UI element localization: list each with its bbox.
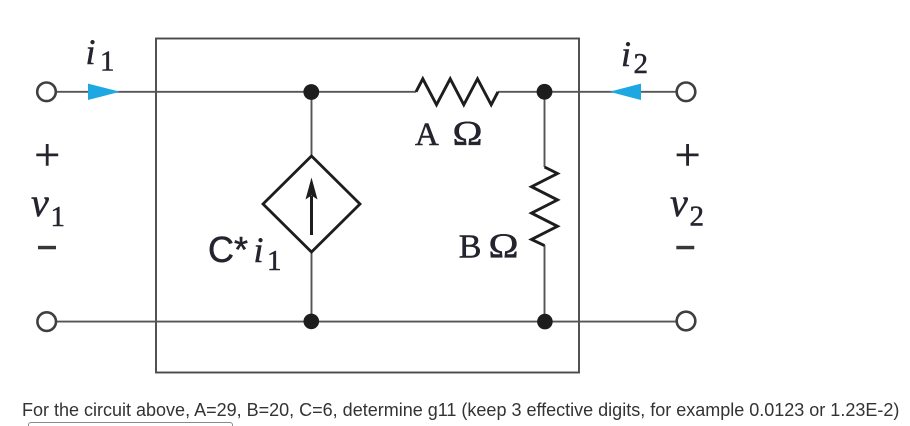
current arrow i2 (blue): [610, 84, 642, 100]
svg-text:i: i: [621, 34, 631, 74]
svg-text:A: A: [415, 117, 439, 153]
dependent current source diamond U1: [263, 156, 360, 252]
wire node1 to source top: [311, 92, 313, 157]
wire resistor B bottom to node4: [544, 245, 546, 321]
svg-text:B: B: [459, 229, 482, 266]
node dot bottom-right: [537, 314, 553, 330]
terminal 2 (top-right port circle): [677, 83, 696, 102]
resistor A (horizontal zigzag): [416, 79, 498, 105]
terminal 3 (bottom-left port circle): [37, 312, 56, 331]
svg-text:Ω: Ω: [489, 227, 519, 266]
wire node2 to resistor B top: [544, 92, 546, 167]
label minus (right): [677, 246, 694, 249]
question text: [22, 400, 899, 421]
svg-text:2: 2: [690, 201, 705, 233]
svg-text:C*: C*: [208, 229, 248, 270]
source arrow (points up): [310, 196, 313, 235]
svg-text:v: v: [31, 180, 49, 225]
svg-text:i: i: [254, 230, 264, 270]
answer input box (cut off at bottom): [28, 422, 233, 426]
wire bottom rail: [56, 321, 676, 323]
node dot bottom-left: [304, 314, 320, 330]
terminal 1 (top-left port circle): [37, 83, 56, 102]
current arrow i1 (blue): [88, 84, 120, 100]
svg-text:2: 2: [634, 48, 649, 80]
terminal 4 (bottom-right port circle): [677, 312, 696, 331]
wire source bottom to node3: [311, 251, 313, 321]
svg-text:+: +: [34, 129, 60, 180]
wire top-left segment: [56, 91, 416, 93]
node dot top-left: [303, 84, 319, 100]
resistor B (vertical zigzag): [532, 167, 558, 246]
svg-text:1: 1: [267, 245, 282, 277]
two-port network box: [156, 39, 579, 373]
wire top-right segment: [498, 91, 676, 93]
svg-text:+: +: [675, 129, 701, 180]
svg-text:i: i: [86, 32, 96, 72]
node dot top-right: [537, 84, 553, 100]
svg-text:v: v: [670, 180, 688, 225]
label minus (left): [38, 246, 55, 249]
svg-text:Ω: Ω: [453, 114, 483, 153]
svg-text:1: 1: [100, 46, 115, 78]
svg-text:1: 1: [51, 201, 66, 233]
